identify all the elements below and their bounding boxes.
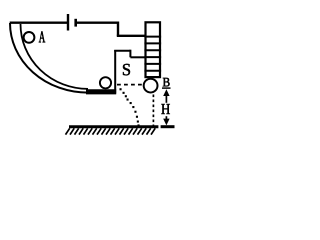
H dimension arrow up: [165, 94, 167, 103]
coil rung 5: [144, 63, 161, 65]
ball B under coil: [144, 79, 158, 93]
dash-dot alignment line between balls: [117, 84, 144, 86]
label S: [123, 64, 130, 75]
projectile trajectory dots: [120, 88, 140, 126]
ground line right segment under arrow: [161, 125, 175, 128]
label B: [163, 78, 170, 87]
coil rung 2: [144, 42, 161, 44]
ground hatching: [66, 128, 156, 134]
H dimension arrow down: [165, 116, 167, 119]
ground line main: [69, 125, 158, 128]
coil rung 4: [144, 56, 161, 58]
battery short plate: [74, 19, 77, 27]
track end ledge (solid bar): [86, 89, 116, 94]
ball A on track: [24, 32, 35, 43]
curved track outer line: [10, 23, 88, 93]
coil rung 6: [144, 70, 161, 72]
wire horizontal to coil: [117, 35, 146, 37]
wire from battery to right corner: [76, 22, 118, 24]
ball at track end: [100, 77, 111, 88]
battery long plate: [67, 14, 69, 31]
curved track inner line: [21, 24, 89, 89]
S-box left vertical wall: [114, 50, 116, 94]
S-box step horizontal to coil: [130, 56, 145, 58]
underline of B: [162, 87, 171, 89]
S-box step vertical: [129, 50, 131, 58]
coil rung 3: [144, 49, 161, 51]
electromagnet coil (ladder) outline: [146, 22, 161, 77]
dashed fall line under ball B: [152, 95, 154, 127]
coil rung 1: [144, 36, 161, 38]
label H: [161, 104, 169, 114]
wire top-left horizontal from track top to battery: [10, 22, 67, 24]
S-box top edge: [114, 50, 130, 52]
wire vertical drop: [117, 22, 119, 36]
label A: [39, 31, 45, 42]
